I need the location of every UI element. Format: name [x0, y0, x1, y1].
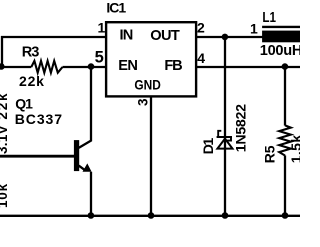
- svg-text:EN: EN: [118, 58, 137, 74]
- svg-text:1N5822: 1N5822: [234, 104, 250, 152]
- svg-text:L1: L1: [262, 9, 276, 26]
- svg-text:10k: 10k: [0, 183, 10, 208]
- svg-text:1: 1: [98, 19, 106, 35]
- svg-text:BC337: BC337: [15, 111, 63, 127]
- svg-text:3.1V: 3.1V: [0, 125, 10, 154]
- svg-text:22k: 22k: [19, 73, 45, 89]
- svg-text:IN: IN: [120, 28, 133, 44]
- svg-text:5: 5: [95, 49, 104, 67]
- svg-text:100uH: 100uH: [260, 43, 300, 59]
- svg-text:Q1: Q1: [15, 95, 33, 111]
- svg-text:GND: GND: [134, 76, 160, 92]
- svg-text:2: 2: [197, 19, 205, 35]
- svg-text:22k: 22k: [0, 92, 10, 120]
- svg-text:1: 1: [250, 20, 258, 36]
- svg-text:R5: R5: [262, 145, 278, 163]
- svg-text:R3: R3: [22, 45, 40, 61]
- svg-text:1.5k: 1.5k: [288, 134, 300, 163]
- svg-text:4: 4: [197, 50, 205, 66]
- svg-text:3: 3: [136, 98, 151, 106]
- svg-text:FB: FB: [164, 58, 182, 74]
- svg-text:D1: D1: [201, 138, 217, 155]
- svg-text:IC1: IC1: [106, 0, 126, 16]
- svg-text:OUT: OUT: [150, 28, 180, 44]
